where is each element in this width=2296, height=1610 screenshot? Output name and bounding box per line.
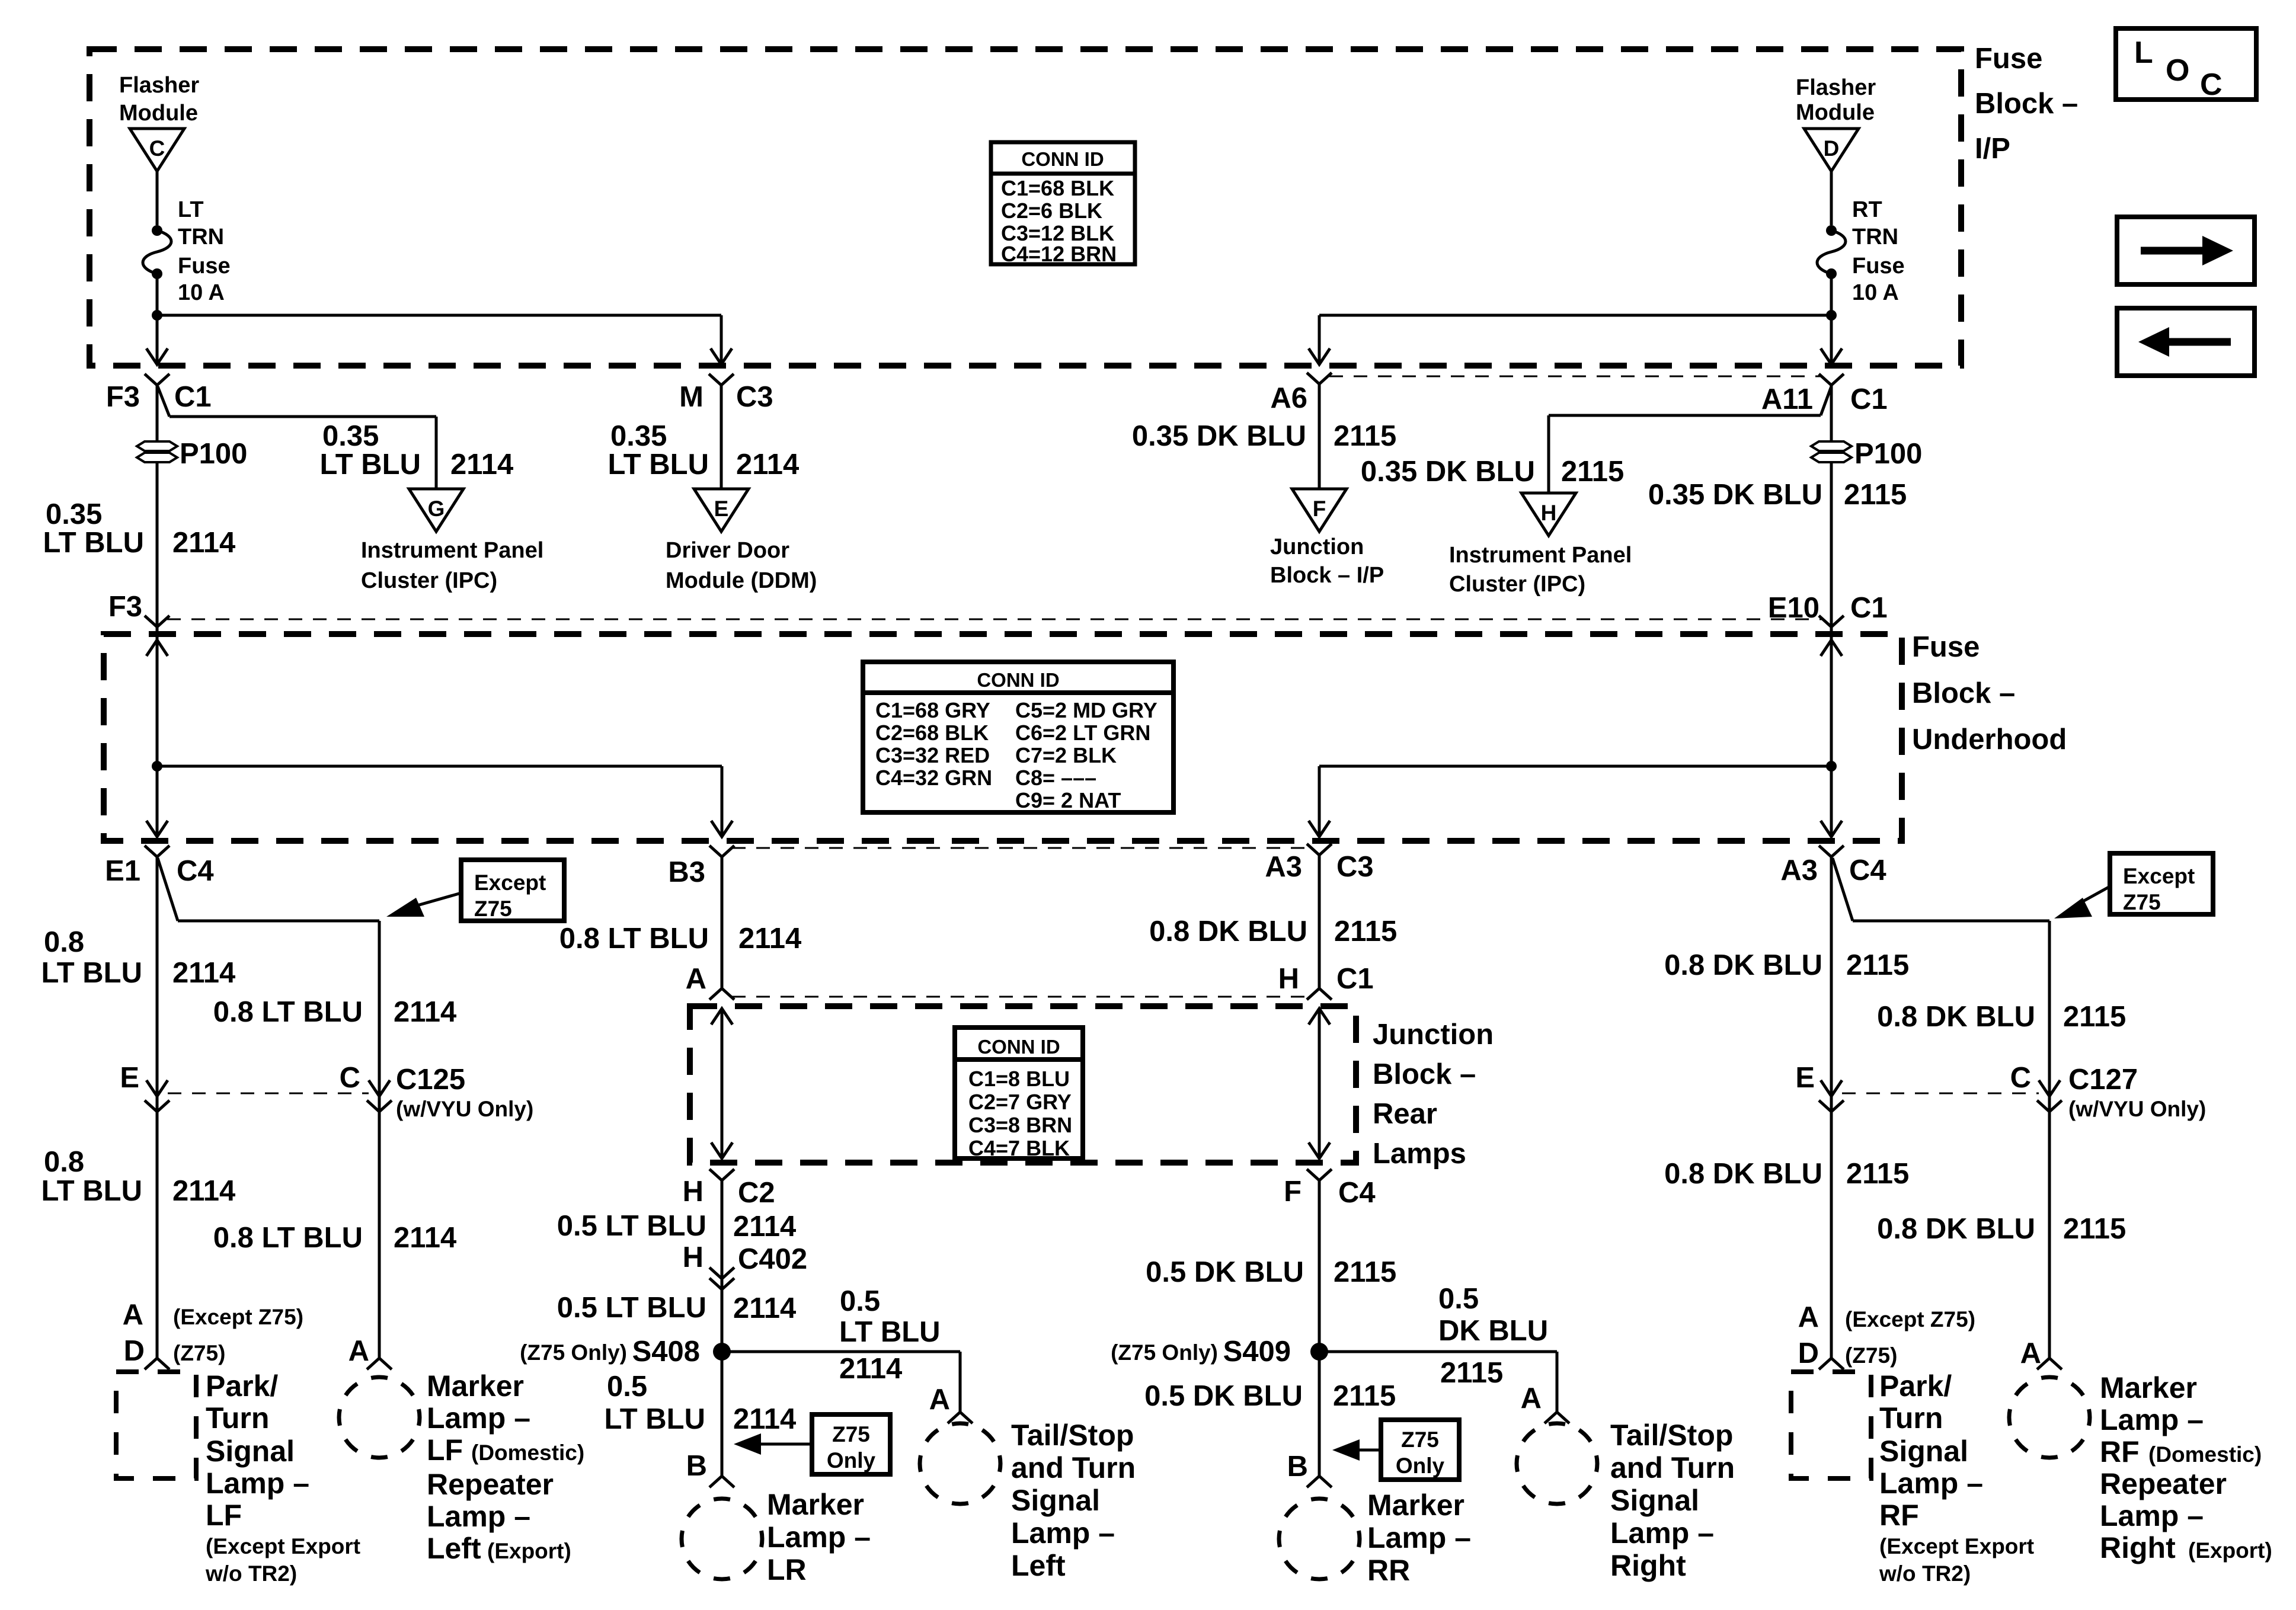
svg-text:Right: Right bbox=[1610, 1549, 1686, 1582]
svg-text:0.5 DK BLU: 0.5 DK BLU bbox=[1146, 1256, 1304, 1288]
svg-text:Flasher: Flasher bbox=[119, 73, 199, 98]
svg-text:w/o TR2): w/o TR2) bbox=[1879, 1561, 1971, 1586]
svg-text:2115: 2115 bbox=[2063, 1001, 2126, 1033]
svg-text:Lamp –: Lamp – bbox=[427, 1500, 530, 1533]
svg-text:H: H bbox=[1541, 501, 1557, 525]
svg-text:Except: Except bbox=[474, 870, 546, 895]
svg-text:C9= 2 NAT: C9= 2 NAT bbox=[1015, 788, 1121, 812]
svg-text:C3=32 RED: C3=32 RED bbox=[875, 743, 990, 767]
svg-text:F: F bbox=[1313, 497, 1326, 521]
svg-text:Lamp –: Lamp – bbox=[2100, 1499, 2204, 1532]
svg-text:C4: C4 bbox=[177, 855, 214, 887]
svg-text:Block –: Block – bbox=[1912, 677, 2015, 709]
svg-text:O: O bbox=[2166, 53, 2189, 88]
svg-text:C: C bbox=[2010, 1062, 2031, 1094]
svg-text:LR: LR bbox=[767, 1553, 807, 1586]
svg-text:C1=68 GRY: C1=68 GRY bbox=[875, 698, 990, 722]
svg-text:2114: 2114 bbox=[172, 1175, 235, 1207]
svg-text:C2=6 BLK: C2=6 BLK bbox=[1001, 199, 1102, 223]
svg-text:w/o TR2): w/o TR2) bbox=[205, 1561, 297, 1586]
svg-text:0.35 DK BLU: 0.35 DK BLU bbox=[1132, 420, 1306, 452]
svg-text:0.8: 0.8 bbox=[44, 926, 84, 958]
svg-text:2115: 2115 bbox=[1334, 916, 1397, 948]
svg-text:and Turn: and Turn bbox=[1011, 1451, 1136, 1484]
svg-text:10 A: 10 A bbox=[1852, 280, 1899, 305]
svg-text:C1: C1 bbox=[1336, 963, 1374, 995]
svg-text:Turn: Turn bbox=[1879, 1401, 1943, 1435]
svg-text:C: C bbox=[2200, 68, 2223, 102]
svg-text:A3: A3 bbox=[1265, 851, 1302, 883]
svg-text:(Z75 Only): (Z75 Only) bbox=[520, 1340, 627, 1365]
svg-text:Lamp –: Lamp – bbox=[427, 1401, 530, 1435]
svg-text:M: M bbox=[679, 381, 703, 413]
svg-text:(Except Z75): (Except Z75) bbox=[173, 1305, 303, 1329]
svg-text:2115: 2115 bbox=[1846, 1158, 1909, 1190]
svg-text:E: E bbox=[1795, 1062, 1815, 1094]
svg-text:Tail/Stop: Tail/Stop bbox=[1011, 1419, 1134, 1452]
svg-text:10 A: 10 A bbox=[178, 280, 225, 305]
svg-text:Cluster (IPC): Cluster (IPC) bbox=[361, 568, 497, 593]
svg-text:(Domestic): (Domestic) bbox=[471, 1441, 584, 1465]
svg-text:CONN ID: CONN ID bbox=[977, 669, 1059, 691]
svg-text:0.8 LT BLU: 0.8 LT BLU bbox=[213, 1222, 363, 1254]
svg-text:2114: 2114 bbox=[394, 996, 456, 1028]
svg-text:TRN: TRN bbox=[1852, 225, 1898, 249]
svg-text:Cluster (IPC): Cluster (IPC) bbox=[1449, 572, 1585, 597]
svg-text:RF: RF bbox=[2100, 1435, 2140, 1468]
svg-text:0.8 LT BLU: 0.8 LT BLU bbox=[213, 996, 363, 1028]
svg-text:RF: RF bbox=[1879, 1499, 1919, 1532]
svg-text:C4=32 GRN: C4=32 GRN bbox=[875, 766, 992, 790]
svg-text:(Export): (Export) bbox=[487, 1539, 571, 1563]
svg-text:(Except Export: (Except Export bbox=[206, 1534, 360, 1558]
svg-text:2115: 2115 bbox=[1333, 1380, 1396, 1412]
svg-text:D: D bbox=[124, 1335, 145, 1367]
svg-text:Z75: Z75 bbox=[832, 1422, 870, 1446]
svg-text:LT BLU: LT BLU bbox=[43, 527, 144, 559]
svg-text:C2: C2 bbox=[738, 1177, 775, 1209]
svg-text:Driver Door: Driver Door bbox=[666, 538, 789, 563]
svg-text:E1: E1 bbox=[105, 855, 140, 887]
svg-text:Only: Only bbox=[827, 1448, 876, 1473]
svg-text:A6: A6 bbox=[1270, 382, 1307, 414]
svg-text:P100: P100 bbox=[180, 438, 247, 470]
svg-text:2114: 2114 bbox=[733, 1403, 796, 1435]
svg-text:0.5 DK BLU: 0.5 DK BLU bbox=[1144, 1380, 1303, 1412]
svg-text:C2=7 GRY: C2=7 GRY bbox=[968, 1090, 1072, 1114]
svg-text:Z75: Z75 bbox=[2123, 890, 2161, 914]
svg-text:Module: Module bbox=[119, 101, 198, 126]
svg-text:(Except Z75): (Except Z75) bbox=[1845, 1307, 1975, 1331]
svg-text:2115: 2115 bbox=[1844, 479, 1907, 511]
svg-text:Signal: Signal bbox=[206, 1435, 295, 1468]
svg-text:0.8 DK BLU: 0.8 DK BLU bbox=[1877, 1213, 2035, 1245]
svg-text:Tail/Stop: Tail/Stop bbox=[1610, 1419, 1733, 1452]
svg-text:0.5: 0.5 bbox=[840, 1285, 880, 1317]
svg-text:0.8 LT BLU: 0.8 LT BLU bbox=[559, 923, 709, 955]
svg-text:C4: C4 bbox=[1338, 1177, 1376, 1209]
svg-text:2114: 2114 bbox=[839, 1353, 902, 1385]
svg-text:A11: A11 bbox=[1761, 383, 1813, 415]
svg-text:2115: 2115 bbox=[1334, 1256, 1396, 1288]
svg-text:A: A bbox=[929, 1384, 950, 1416]
svg-text:2115: 2115 bbox=[2063, 1213, 2126, 1245]
svg-text:Right: Right bbox=[2100, 1531, 2176, 1564]
svg-text:2114: 2114 bbox=[450, 449, 513, 481]
svg-text:Marker: Marker bbox=[2100, 1371, 2197, 1404]
svg-text:Signal: Signal bbox=[1011, 1484, 1100, 1517]
svg-text:C6=2 LT GRN: C6=2 LT GRN bbox=[1015, 721, 1150, 745]
svg-text:(Z75): (Z75) bbox=[173, 1341, 225, 1365]
svg-text:0.35: 0.35 bbox=[610, 420, 667, 452]
svg-text:A: A bbox=[348, 1335, 369, 1367]
svg-text:Junction: Junction bbox=[1373, 1019, 1494, 1051]
svg-text:C3=8 BRN: C3=8 BRN bbox=[968, 1113, 1072, 1137]
svg-text:LT BLU: LT BLU bbox=[41, 957, 142, 989]
svg-text:0.5 LT BLU: 0.5 LT BLU bbox=[557, 1292, 706, 1324]
svg-text:H: H bbox=[683, 1176, 703, 1208]
svg-text:C2=68 BLK: C2=68 BLK bbox=[875, 721, 989, 745]
svg-text:P100: P100 bbox=[1854, 438, 1922, 470]
svg-text:Lamp –: Lamp – bbox=[1367, 1521, 1471, 1554]
svg-text:Instrument Panel: Instrument Panel bbox=[1449, 543, 1632, 568]
svg-text:0.5: 0.5 bbox=[1438, 1283, 1479, 1315]
svg-text:Park/: Park/ bbox=[1879, 1369, 1952, 1403]
svg-text:Marker: Marker bbox=[767, 1488, 864, 1521]
svg-text:Signal: Signal bbox=[1610, 1484, 1699, 1517]
svg-text:Repeater: Repeater bbox=[2100, 1467, 2227, 1500]
svg-text:Lamp –: Lamp – bbox=[1011, 1516, 1115, 1550]
svg-text:0.5 LT BLU: 0.5 LT BLU bbox=[557, 1210, 706, 1242]
svg-text:I/P: I/P bbox=[1975, 133, 2010, 165]
svg-text:L: L bbox=[2134, 36, 2153, 70]
svg-text:A: A bbox=[123, 1299, 143, 1331]
svg-text:0.35: 0.35 bbox=[322, 420, 379, 452]
svg-text:Turn: Turn bbox=[206, 1401, 269, 1435]
svg-text:and Turn: and Turn bbox=[1610, 1451, 1735, 1484]
svg-text:C4=7 BLK: C4=7 BLK bbox=[968, 1136, 1070, 1160]
svg-text:0.8 DK BLU: 0.8 DK BLU bbox=[1149, 916, 1307, 948]
svg-text:E10: E10 bbox=[1768, 592, 1819, 624]
svg-text:Lamps: Lamps bbox=[1373, 1138, 1466, 1170]
svg-text:Z75: Z75 bbox=[1401, 1427, 1439, 1452]
svg-text:Lamp –: Lamp – bbox=[2100, 1403, 2204, 1436]
svg-text:B: B bbox=[1287, 1451, 1308, 1483]
svg-text:LF: LF bbox=[206, 1499, 242, 1532]
svg-text:LT BLU: LT BLU bbox=[839, 1316, 941, 1348]
svg-text:2115: 2115 bbox=[1846, 949, 1909, 981]
svg-text:Block –: Block – bbox=[1975, 88, 2078, 120]
svg-text:0.8: 0.8 bbox=[44, 1146, 84, 1178]
svg-text:C402: C402 bbox=[738, 1243, 807, 1275]
svg-text:A: A bbox=[1521, 1382, 1542, 1414]
svg-text:C127: C127 bbox=[2068, 1064, 2138, 1096]
svg-text:C1: C1 bbox=[1850, 592, 1888, 624]
svg-text:0.35 DK BLU: 0.35 DK BLU bbox=[1648, 479, 1822, 511]
svg-text:LT BLU: LT BLU bbox=[319, 449, 421, 481]
svg-text:S409: S409 bbox=[1223, 1336, 1291, 1368]
svg-text:E: E bbox=[120, 1062, 139, 1094]
svg-text:0.35 DK BLU: 0.35 DK BLU bbox=[1361, 456, 1535, 488]
svg-text:Marker: Marker bbox=[1367, 1489, 1464, 1522]
svg-text:B: B bbox=[686, 1450, 707, 1482]
svg-text:2115: 2115 bbox=[1561, 456, 1624, 488]
svg-text:LT: LT bbox=[178, 197, 204, 222]
svg-text:Signal: Signal bbox=[1879, 1435, 1968, 1468]
svg-text:Block –: Block – bbox=[1373, 1058, 1476, 1090]
svg-text:RR: RR bbox=[1367, 1554, 1410, 1587]
svg-text:A: A bbox=[2020, 1337, 2041, 1369]
svg-text:Fuse: Fuse bbox=[178, 254, 231, 279]
svg-text:F3: F3 bbox=[108, 591, 142, 623]
svg-text:(Z75): (Z75) bbox=[1845, 1343, 1897, 1368]
svg-text:Park/: Park/ bbox=[206, 1369, 278, 1403]
svg-text:Marker: Marker bbox=[427, 1369, 524, 1403]
svg-text:C4: C4 bbox=[1849, 854, 1886, 886]
svg-text:C: C bbox=[340, 1062, 360, 1094]
svg-text:Module (DDM): Module (DDM) bbox=[666, 568, 817, 593]
svg-text:Flasher: Flasher bbox=[1796, 75, 1876, 100]
svg-text:F: F bbox=[1284, 1176, 1302, 1208]
svg-text:(Domestic): (Domestic) bbox=[2148, 1442, 2262, 1467]
svg-text:D: D bbox=[1824, 136, 1840, 161]
svg-text:2115: 2115 bbox=[1440, 1357, 1503, 1389]
svg-text:Repeater: Repeater bbox=[427, 1468, 554, 1501]
svg-text:Left: Left bbox=[427, 1532, 481, 1565]
svg-text:C8= –––: C8= ––– bbox=[1015, 766, 1096, 790]
svg-text:Only: Only bbox=[1396, 1454, 1445, 1478]
svg-text:(Export): (Export) bbox=[2188, 1538, 2272, 1563]
svg-text:(Except Export: (Except Export bbox=[1879, 1534, 2034, 1558]
svg-text:S408: S408 bbox=[632, 1336, 700, 1368]
svg-text:(w/VYU Only): (w/VYU Only) bbox=[2068, 1097, 2206, 1121]
svg-text:CONN ID: CONN ID bbox=[1021, 148, 1104, 170]
svg-text:Lamp –: Lamp – bbox=[206, 1467, 309, 1500]
svg-text:(w/VYU Only): (w/VYU Only) bbox=[396, 1097, 533, 1121]
svg-text:C1=68 BLK: C1=68 BLK bbox=[1001, 176, 1114, 200]
svg-text:Fuse: Fuse bbox=[1852, 254, 1905, 279]
svg-text:0.8 DK BLU: 0.8 DK BLU bbox=[1664, 1158, 1822, 1190]
svg-text:LT BLU: LT BLU bbox=[41, 1175, 142, 1207]
svg-text:Lamp –: Lamp – bbox=[1879, 1467, 1983, 1500]
svg-text:C4=12 BRN: C4=12 BRN bbox=[1001, 242, 1117, 266]
svg-text:Junction: Junction bbox=[1270, 534, 1364, 559]
svg-text:C: C bbox=[149, 136, 165, 161]
svg-text:C5=2 MD GRY: C5=2 MD GRY bbox=[1015, 698, 1157, 722]
svg-text:(Z75 Only): (Z75 Only) bbox=[1111, 1340, 1218, 1365]
svg-text:Except: Except bbox=[2123, 864, 2195, 888]
svg-text:Instrument Panel: Instrument Panel bbox=[361, 538, 543, 563]
svg-text:A: A bbox=[686, 963, 706, 995]
svg-text:C1=8 BLU: C1=8 BLU bbox=[968, 1067, 1070, 1091]
svg-text:2114: 2114 bbox=[736, 449, 799, 481]
svg-text:2114: 2114 bbox=[172, 957, 235, 989]
svg-text:C1: C1 bbox=[174, 381, 212, 413]
svg-text:H: H bbox=[1278, 963, 1299, 995]
svg-text:C7=2 BLK: C7=2 BLK bbox=[1015, 743, 1117, 767]
svg-text:DK BLU: DK BLU bbox=[1438, 1315, 1548, 1347]
svg-text:Lamp –: Lamp – bbox=[767, 1521, 871, 1554]
svg-text:G: G bbox=[428, 497, 445, 521]
svg-text:2114: 2114 bbox=[733, 1211, 796, 1243]
svg-text:C3: C3 bbox=[736, 381, 773, 413]
svg-text:Module: Module bbox=[1796, 100, 1875, 125]
svg-text:0.8 DK BLU: 0.8 DK BLU bbox=[1664, 949, 1822, 981]
svg-text:2114: 2114 bbox=[738, 923, 801, 955]
svg-text:2114: 2114 bbox=[394, 1222, 456, 1254]
svg-text:0.8 DK BLU: 0.8 DK BLU bbox=[1877, 1001, 2035, 1033]
svg-text:TRN: TRN bbox=[178, 225, 224, 249]
svg-text:Lamp –: Lamp – bbox=[1610, 1516, 1714, 1550]
svg-text:F3: F3 bbox=[106, 381, 140, 413]
svg-text:CONN ID: CONN ID bbox=[977, 1036, 1060, 1058]
svg-text:Rear: Rear bbox=[1373, 1098, 1437, 1130]
svg-text:C125: C125 bbox=[396, 1064, 465, 1096]
svg-text:Z75: Z75 bbox=[474, 897, 512, 921]
svg-text:Left: Left bbox=[1011, 1549, 1066, 1582]
svg-text:RT: RT bbox=[1852, 197, 1882, 222]
svg-text:2115: 2115 bbox=[1334, 420, 1396, 452]
svg-text:A: A bbox=[1798, 1301, 1819, 1333]
svg-text:Fuse: Fuse bbox=[1912, 631, 1980, 663]
svg-text:LT BLU: LT BLU bbox=[607, 449, 709, 481]
svg-text:Fuse: Fuse bbox=[1975, 43, 2042, 75]
svg-text:Block – I/P: Block – I/P bbox=[1270, 563, 1384, 588]
svg-text:A3: A3 bbox=[1780, 854, 1818, 886]
svg-text:Underhood: Underhood bbox=[1912, 724, 2067, 756]
svg-text:LF: LF bbox=[427, 1433, 463, 1467]
svg-text:B3: B3 bbox=[668, 856, 705, 888]
svg-text:C3: C3 bbox=[1336, 851, 1374, 883]
svg-text:0.5: 0.5 bbox=[607, 1371, 647, 1403]
svg-text:H: H bbox=[683, 1241, 703, 1273]
svg-text:C1: C1 bbox=[1850, 383, 1888, 415]
svg-text:2114: 2114 bbox=[733, 1292, 796, 1324]
svg-text:D: D bbox=[1798, 1337, 1819, 1369]
svg-text:0.35: 0.35 bbox=[46, 498, 102, 530]
svg-text:E: E bbox=[714, 497, 729, 521]
svg-text:LT BLU: LT BLU bbox=[604, 1403, 705, 1435]
svg-text:2114: 2114 bbox=[172, 527, 235, 559]
